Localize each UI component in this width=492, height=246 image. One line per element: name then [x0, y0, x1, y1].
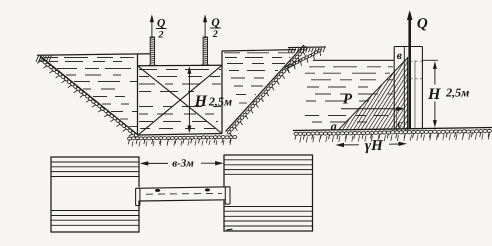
- left abutment plank lines bottom: [51, 210, 139, 212]
- gamma-H dimension: [342, 144, 359, 146]
- svg-text:Q: Q: [211, 17, 219, 29]
- svg-text:Q: Q: [417, 16, 428, 32]
- H dimension line right: [434, 63, 436, 85]
- right diagram water dashes: [309, 66, 393, 68]
- wall inner line 2: [414, 60, 416, 129]
- water surface line right diagram: [313, 59, 394, 61]
- svg-text:в: в: [397, 50, 402, 62]
- gate bar right cap: [224, 187, 226, 204]
- left abutment rectangle: [51, 157, 139, 232]
- width dimension line: [144, 162, 168, 164]
- right bank crest ground line: [288, 46, 326, 49]
- wall left edge: [393, 47, 395, 130]
- small mark bottom left of right abutment: [227, 228, 233, 231]
- svg-text:Н: Н: [427, 86, 441, 103]
- left bank slope earth texture: [37, 57, 138, 137]
- H dimension tick at water level: [423, 59, 438, 61]
- wall internal joint dash: [405, 78, 422, 80]
- left screw post: [148, 37, 156, 66]
- svg-text:2,5м: 2,5м: [208, 94, 232, 108]
- svg-text:γН: γН: [365, 138, 384, 154]
- right abutment rectangle: [224, 155, 313, 231]
- wall inner plank line: [403, 47, 405, 130]
- ground earth texture right diagram: [294, 129, 491, 139]
- right bank slope earth texture: [227, 46, 308, 137]
- gate area water dashes: [139, 69, 221, 71]
- left pool water dashes: [44, 57, 137, 59]
- shield gate right edge: [221, 51, 223, 134]
- right screw post: [201, 37, 209, 65]
- channel bottom line: [138, 134, 222, 136]
- svg-text:2: 2: [158, 29, 164, 40]
- svg-text:в-3м: в-3м: [172, 158, 194, 170]
- gate bar left cap: [135, 188, 137, 205]
- right abutment plank lines top: [224, 159, 313, 161]
- shield gate cross brace 2: [138, 65, 222, 135]
- shield gate cross brace 1: [138, 66, 223, 134]
- wall right edge: [421, 47, 423, 130]
- svg-text:Q: Q: [157, 17, 165, 29]
- wall internal water level dash: [405, 60, 422, 62]
- c vertical reference line: [396, 110, 398, 131]
- right post force arrow: [204, 22, 206, 37]
- pressure triangle outline: [338, 58, 408, 131]
- ground extra ticks right diagram: [300, 134, 490, 143]
- svg-text:2: 2: [212, 29, 218, 40]
- right bank slope line: [226, 45, 305, 132]
- svg-text:Н: Н: [194, 93, 208, 110]
- P force arrow: [341, 108, 401, 110]
- left bank ground line: [37, 54, 150, 55]
- channel bottom earth texture: [127, 135, 236, 144]
- svg-text:a: a: [331, 119, 337, 133]
- svg-text:P: P: [343, 92, 353, 108]
- left bank slope line: [40, 56, 138, 135]
- right pool water dashes: [224, 52, 294, 54]
- H dimension line in gate: [188, 68, 190, 132]
- shield gate left edge: [137, 54, 139, 135]
- svg-text:2,5м: 2,5м: [445, 85, 469, 99]
- ground line right diagram: [293, 128, 492, 131]
- channel bottom extra ticks: [132, 140, 231, 147]
- left abutment plank lines top: [51, 161, 139, 163]
- right abutment plank lines bottom: [224, 206, 313, 208]
- right-diagram left bank slope texture: [285, 49, 321, 73]
- wall top edge: [394, 46, 422, 48]
- gate bar dashed centerline: [146, 192, 222, 195]
- shield rod thick (Q rod): [408, 14, 411, 130]
- left post force arrow: [151, 22, 153, 37]
- gate bar bolt right: [205, 188, 210, 191]
- gate bar bolt left: [155, 189, 160, 192]
- left bank grass ticks: [36, 56, 52, 62]
- right bank crest grass ticks: [288, 48, 325, 53]
- shield gate top edge: [138, 64, 223, 66]
- right pool water surface line: [222, 50, 296, 51]
- gate bar in plan: [136, 187, 230, 200]
